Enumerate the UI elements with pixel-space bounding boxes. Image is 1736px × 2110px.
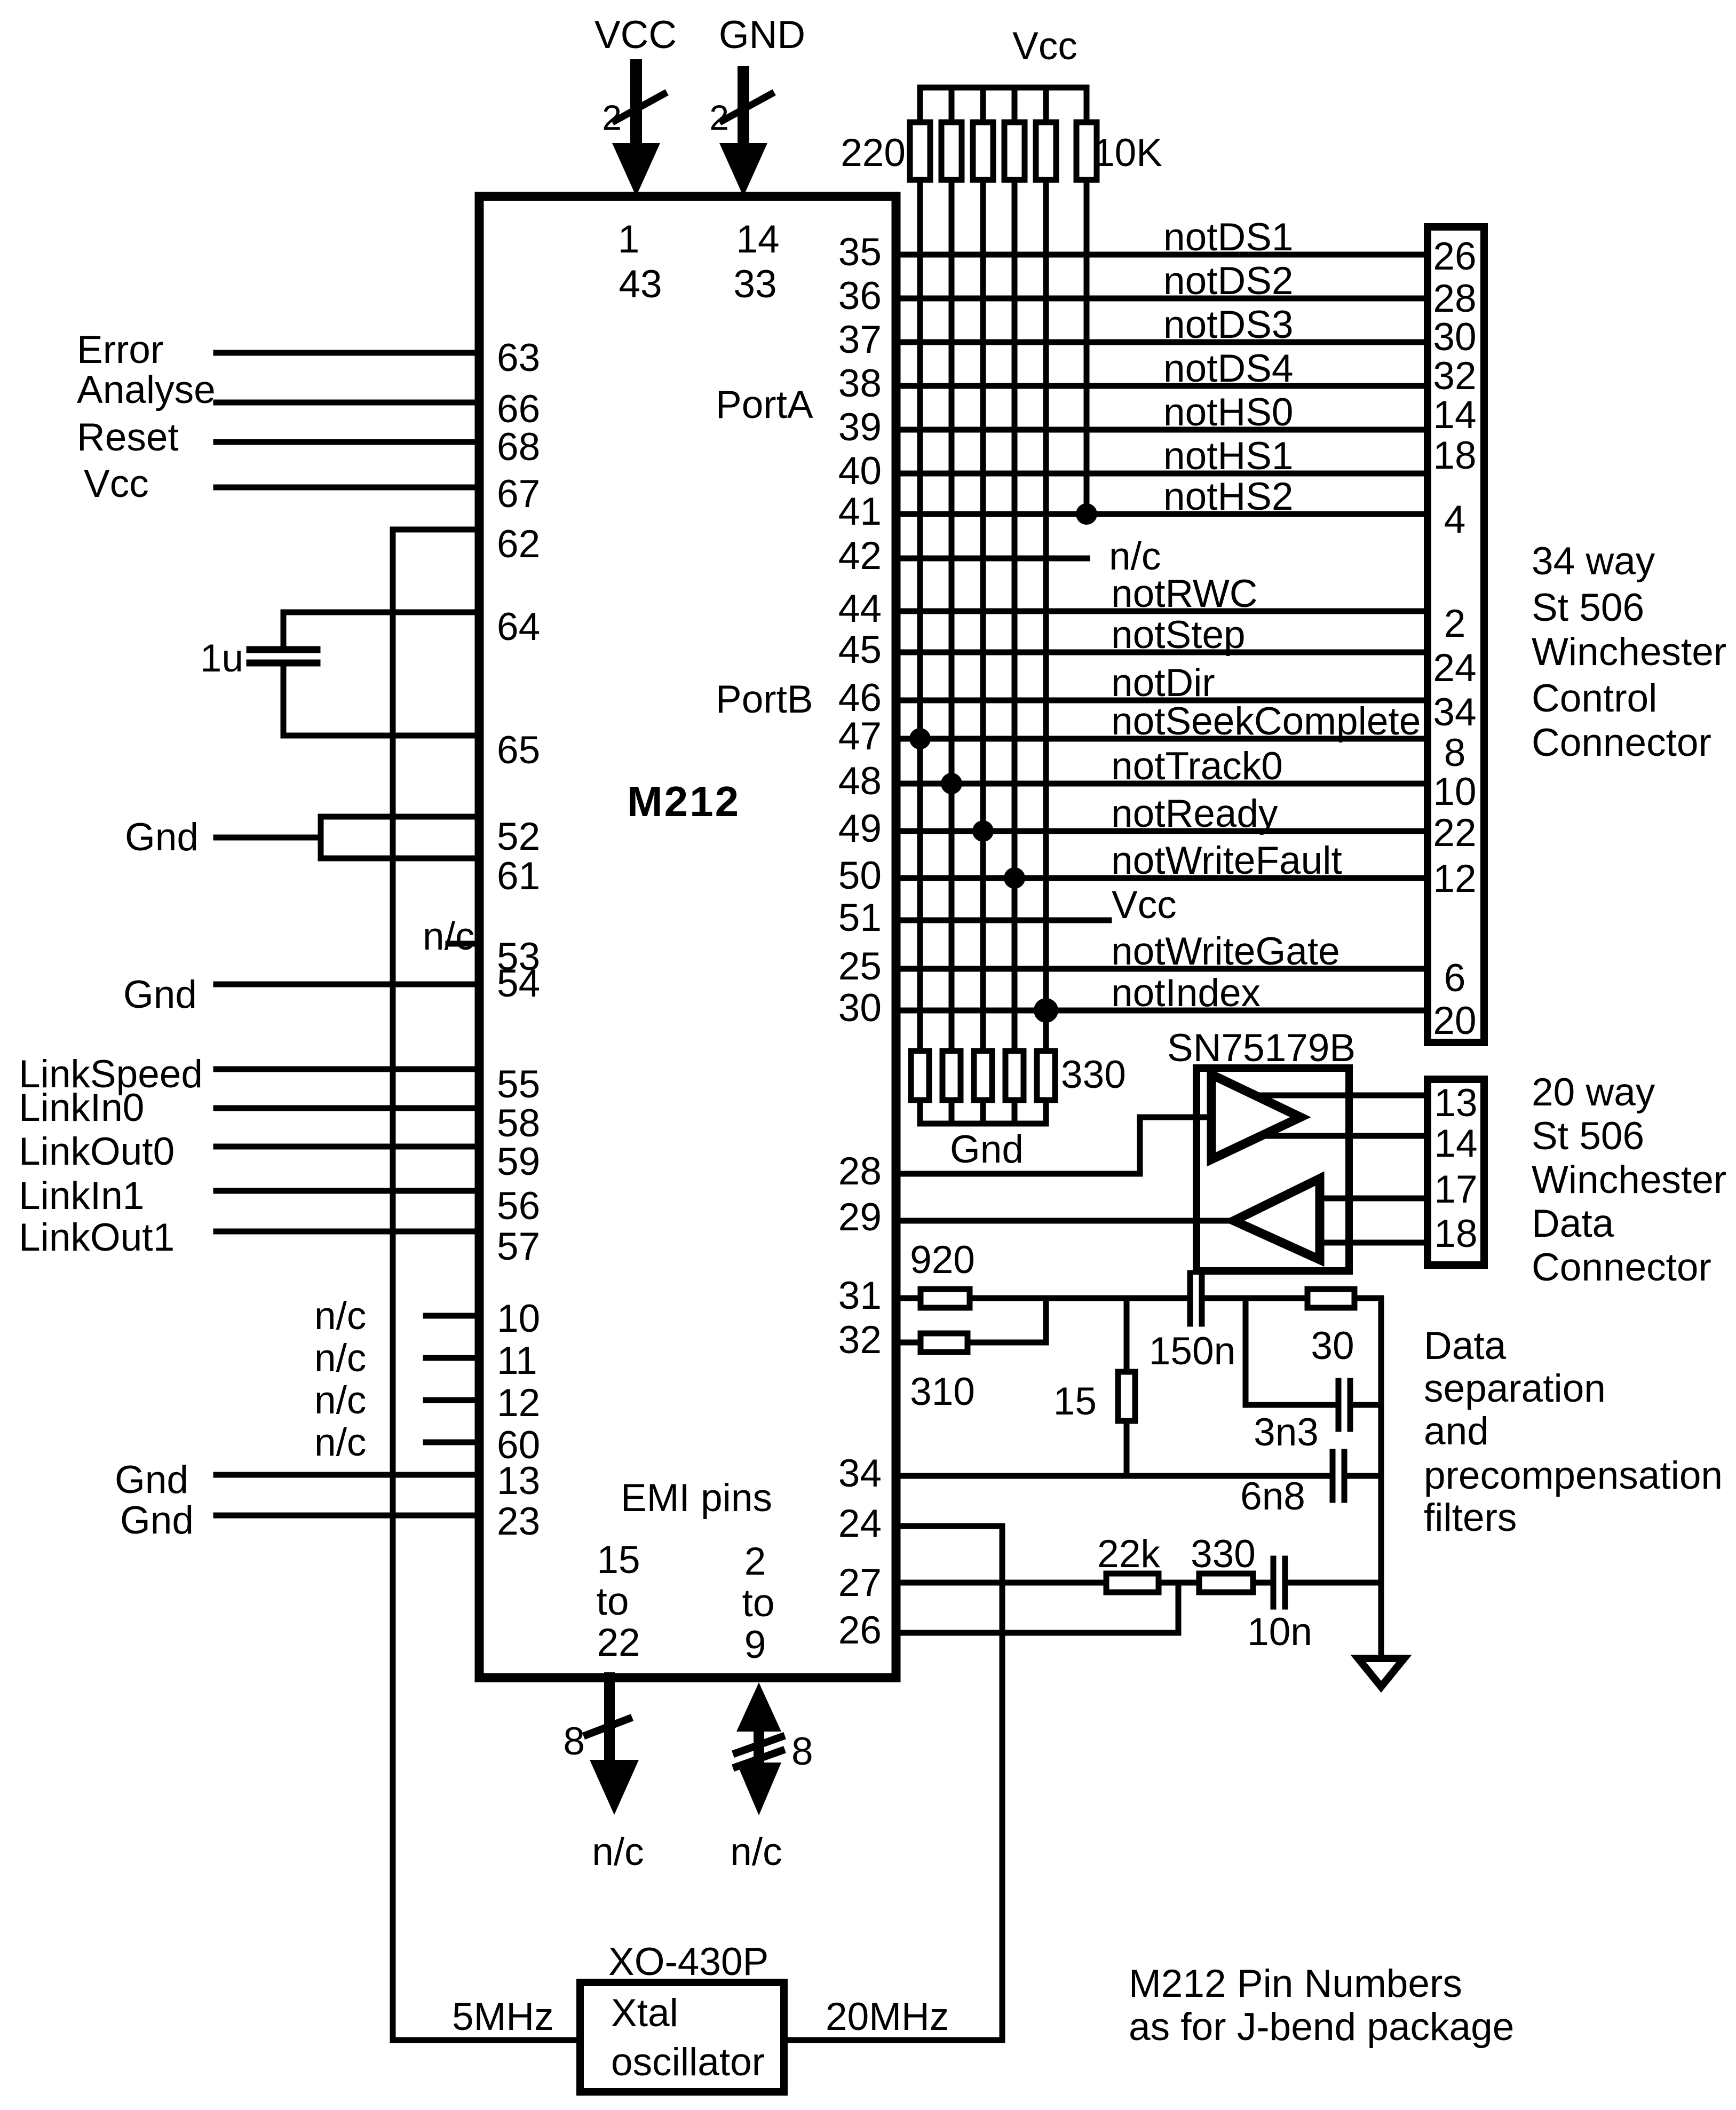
- oscillator X1 text: [611, 1992, 765, 2084]
- wire pin 38 notDS4: [838, 347, 1477, 405]
- node Error wire to pin 63: [77, 328, 540, 380]
- label pins 2 to 9: [742, 1540, 775, 1666]
- svg-text:M212: M212: [627, 778, 740, 825]
- capacitor 6n8: [1240, 1452, 1344, 1518]
- resistor 220 (column 4): [1004, 122, 1025, 180]
- wire pin 34 to capacitor 6n8: [838, 1452, 1333, 1495]
- svg-text:40: 40: [838, 449, 882, 493]
- svg-text:and: and: [1424, 1410, 1489, 1453]
- svg-text:Winchester: Winchester: [1532, 1158, 1726, 1202]
- wire receiver input from connector 17: [1320, 1196, 1424, 1202]
- svg-text:62: 62: [497, 523, 540, 566]
- svg-text:42: 42: [838, 534, 882, 578]
- svg-text:8: 8: [1444, 731, 1466, 775]
- wire pin 26 up to 22k/330 node: [838, 1583, 1178, 1652]
- label pins 15 to 22: [597, 1538, 640, 1664]
- power arrow VCC into pins 1,43: [612, 65, 660, 196]
- junction pin 41 / 10K: [1076, 503, 1097, 525]
- svg-text:notSeekComplete: notSeekComplete: [1111, 700, 1421, 743]
- label 34 way St 506 Winchester Control Connector: [1532, 540, 1726, 764]
- svg-text:31: 31: [838, 1274, 882, 1317]
- svg-text:13: 13: [1434, 1081, 1477, 1125]
- svg-text:22: 22: [1433, 811, 1476, 855]
- svg-text:LinkIn1: LinkIn1: [19, 1174, 144, 1218]
- svg-text:notStep: notStep: [1111, 613, 1246, 657]
- wire pin 32: [838, 1318, 918, 1362]
- svg-text:8: 8: [563, 1720, 585, 1763]
- connector J1 34 way box: [1428, 227, 1484, 1042]
- svg-text:6: 6: [1444, 957, 1466, 1000]
- connector J2 pin numbers: [1434, 1081, 1477, 1255]
- bus arrow EMI pins 2-9 n/c (bidirectional): [730, 1682, 813, 1874]
- wire capacitor 10n to right rail: [1285, 1580, 1381, 1586]
- svg-text:1u: 1u: [200, 637, 243, 680]
- svg-text:48: 48: [838, 760, 882, 803]
- capacitor 150n: [1149, 1273, 1235, 1373]
- wire pin 24 to oscillator 20MHz: [788, 1502, 1002, 2040]
- junction pin 50 / column 4: [1004, 867, 1025, 889]
- wire resistor 22k to resistor 330: [1159, 1580, 1196, 1586]
- svg-text:15: 15: [1053, 1380, 1097, 1423]
- svg-text:67: 67: [497, 472, 540, 516]
- svg-text:Data: Data: [1424, 1324, 1507, 1368]
- svg-text:13: 13: [497, 1459, 540, 1503]
- svg-text:28: 28: [1433, 277, 1476, 320]
- ground: [1358, 1658, 1404, 1687]
- wire pull-up column 1: [917, 183, 923, 1048]
- wire pin 46 notDir: [838, 661, 1477, 734]
- svg-text:10K: 10K: [1093, 131, 1162, 175]
- node LinkOut0 wire to pin 59: [19, 1130, 540, 1183]
- svg-text:2: 2: [602, 98, 622, 137]
- resistor 920: [910, 1238, 975, 1308]
- svg-text:notDS2: notDS2: [1163, 259, 1294, 303]
- wire pin 30 notIndex: [838, 971, 1477, 1042]
- svg-text:notWriteFault: notWriteFault: [1111, 839, 1342, 882]
- node Gnd wire to pin 13: [115, 1458, 540, 1503]
- wire pin 51 Vcc: [838, 883, 1177, 939]
- svg-text:Data: Data: [1532, 1202, 1614, 1245]
- svg-text:51: 51: [838, 896, 882, 939]
- svg-text:25: 25: [838, 945, 882, 988]
- wire pull-up column 4: [1012, 183, 1018, 1048]
- svg-text:separation: separation: [1424, 1367, 1606, 1410]
- resistor 330 (column 5): [1037, 1051, 1055, 1100]
- svg-text:Analyse: Analyse: [77, 368, 216, 412]
- pin 60 n/c stub: [314, 1421, 540, 1467]
- wire pull-up column 5: [1043, 183, 1049, 1048]
- svg-text:filters: filters: [1424, 1496, 1517, 1539]
- svg-text:29: 29: [838, 1196, 882, 1239]
- svg-text:Connector: Connector: [1532, 721, 1711, 764]
- wire pin 40 notHS1: [838, 434, 1477, 493]
- svg-text:32: 32: [838, 1318, 882, 1362]
- svg-text:32: 32: [1433, 354, 1476, 398]
- svg-text:n/c: n/c: [1109, 535, 1161, 578]
- junction pin 49 / column 3: [972, 820, 994, 842]
- wire pin 62 to 5MHz oscillator input: [393, 523, 576, 2040]
- svg-text:330: 330: [1061, 1053, 1126, 1096]
- svg-text:LinkOut1: LinkOut1: [19, 1216, 175, 1259]
- svg-text:n/c: n/c: [314, 1337, 366, 1380]
- resistor 310: [910, 1333, 975, 1413]
- svg-text:47: 47: [838, 715, 882, 758]
- wire pin 49 notReady: [838, 792, 1477, 855]
- wire resistor 30 to right rail: [1354, 1295, 1381, 1301]
- wire pin 47 notSeekComplete: [838, 700, 1466, 775]
- resistor 30: [1307, 1289, 1354, 1368]
- svg-text:notRWC: notRWC: [1111, 572, 1258, 615]
- svg-text:220: 220: [841, 131, 906, 175]
- oscillator X1 box: [580, 1982, 784, 2092]
- junction pin 30 / column 5: [1034, 998, 1058, 1023]
- wire resistor 330 to capacitor 10n: [1253, 1580, 1273, 1586]
- svg-text:26: 26: [1433, 235, 1476, 278]
- svg-text:18: 18: [1434, 1212, 1477, 1255]
- wire pin 50 notWriteFault: [838, 839, 1477, 900]
- wire pin 42 n/c: [838, 534, 1161, 578]
- pin 12 n/c stub: [314, 1379, 540, 1425]
- svg-text:12: 12: [497, 1381, 540, 1425]
- svg-text:310: 310: [910, 1370, 975, 1413]
- svg-text:17: 17: [1434, 1168, 1477, 1211]
- svg-text:PortB: PortB: [716, 678, 813, 721]
- svg-text:n/c: n/c: [592, 1830, 644, 1874]
- svg-text:30: 30: [1311, 1324, 1354, 1368]
- svg-text:33: 33: [733, 263, 776, 306]
- svg-text:n/c: n/c: [314, 1379, 366, 1422]
- resistor 220 (column 2): [941, 122, 962, 180]
- svg-text:n/c: n/c: [423, 915, 474, 958]
- svg-text:precompensation: precompensation: [1424, 1454, 1723, 1497]
- svg-text:55: 55: [497, 1063, 540, 1106]
- resistor 22k: [1097, 1532, 1160, 1592]
- node Gnd wire to pin 54: [123, 962, 540, 1016]
- label 20 way St 506 Winchester Data Connector: [1532, 1071, 1726, 1289]
- svg-text:9: 9: [744, 1623, 766, 1666]
- svg-text:920: 920: [910, 1238, 975, 1282]
- power arrow GND into pins 14,33: [719, 72, 767, 196]
- svg-text:12: 12: [1433, 857, 1476, 900]
- buffer receiver triangle: [1234, 1179, 1320, 1260]
- svg-text:notDS3: notDS3: [1163, 303, 1294, 346]
- svg-text:11: 11: [497, 1339, 537, 1382]
- resistor 330 (precomp): [1191, 1532, 1256, 1592]
- svg-text:EMI pins: EMI pins: [621, 1476, 772, 1520]
- svg-text:VCC: VCC: [594, 13, 677, 57]
- svg-text:35: 35: [838, 231, 882, 274]
- svg-text:notHS0: notHS0: [1163, 391, 1294, 434]
- junction pin 48 / column 2: [941, 773, 962, 794]
- svg-text:27: 27: [838, 1561, 882, 1605]
- svg-text:2: 2: [709, 98, 729, 137]
- svg-text:24: 24: [838, 1502, 882, 1545]
- svg-text:Gnd: Gnd: [123, 973, 197, 1016]
- svg-text:n/c: n/c: [314, 1294, 366, 1338]
- svg-text:68: 68: [497, 425, 540, 469]
- node Gnd fork to pins 52 and 61: [125, 815, 540, 898]
- svg-text:notTrack0: notTrack0: [1111, 745, 1283, 788]
- svg-text:Gnd: Gnd: [120, 1499, 194, 1542]
- wire pin 41 notHS2: [838, 475, 1466, 541]
- node Analyse wire to pin 66: [77, 368, 540, 431]
- svg-text:XO-430P: XO-430P: [608, 1940, 768, 1983]
- svg-text:28: 28: [838, 1150, 882, 1193]
- svg-text:26: 26: [838, 1609, 882, 1652]
- svg-text:56: 56: [497, 1184, 540, 1228]
- wire pin 27: [838, 1561, 1104, 1605]
- svg-text:14: 14: [1434, 1122, 1477, 1165]
- wire capacitor 150n to resistor 30: [1202, 1295, 1305, 1301]
- wire capacitor 3n3 to right rail: [1350, 1402, 1381, 1408]
- svg-text:Gnd: Gnd: [125, 816, 199, 859]
- svg-text:64: 64: [497, 605, 540, 649]
- junction pin 47 / column 1: [909, 728, 931, 749]
- svg-text:34: 34: [1433, 691, 1476, 734]
- svg-text:n/c: n/c: [730, 1830, 782, 1874]
- svg-text:to: to: [597, 1580, 629, 1623]
- wire pull-up column 3: [980, 183, 986, 1048]
- resistor 330 (column 2): [942, 1051, 961, 1100]
- svg-text:22k: 22k: [1097, 1532, 1160, 1576]
- svg-text:41: 41: [838, 490, 882, 533]
- svg-text:5MHz: 5MHz: [452, 1995, 554, 2038]
- capacitor 10n: [1247, 1559, 1312, 1654]
- svg-text:n/c: n/c: [314, 1421, 366, 1464]
- node LinkIn0 wire to pin 58: [19, 1086, 540, 1145]
- svg-text:4: 4: [1444, 498, 1466, 541]
- resistor 220 (column 3): [973, 122, 993, 180]
- wire receiver output to pin 29: [838, 1196, 1234, 1239]
- svg-text:20: 20: [1433, 999, 1476, 1042]
- wire capacitor to pin 65: [283, 663, 540, 772]
- svg-text:20MHz: 20MHz: [826, 1995, 949, 2038]
- wire resistor 920 to capacitor 150n: [972, 1295, 1187, 1301]
- label Data separation and precompensation filters: [1424, 1324, 1723, 1539]
- wire pin 36 notDS2: [838, 259, 1477, 320]
- node LinkOut1 wire to pin 57: [19, 1216, 540, 1268]
- resistor 330 (column 4): [1005, 1051, 1024, 1100]
- wire capacitor 6n8 to right rail: [1344, 1473, 1381, 1479]
- svg-text:1: 1: [618, 218, 640, 261]
- svg-text:22: 22: [597, 1621, 640, 1664]
- svg-text:St 506: St 506: [1532, 1115, 1644, 1158]
- svg-text:Gnd: Gnd: [950, 1128, 1024, 1171]
- wire pin 31: [838, 1274, 918, 1317]
- svg-text:34: 34: [838, 1452, 882, 1495]
- svg-text:59: 59: [497, 1140, 540, 1183]
- svg-text:10n: 10n: [1247, 1610, 1312, 1654]
- svg-text:15: 15: [597, 1538, 640, 1582]
- pin 11 n/c stub: [314, 1337, 537, 1382]
- svg-text:Connector: Connector: [1532, 1246, 1711, 1289]
- node Gnd wire to pin 23: [120, 1499, 540, 1543]
- resistor 220 (column 1): [910, 122, 930, 180]
- svg-text:Xtal: Xtal: [611, 1992, 678, 2035]
- svg-text:LinkOut0: LinkOut0: [19, 1130, 175, 1173]
- svg-text:54: 54: [497, 962, 540, 1005]
- svg-text:14: 14: [736, 218, 779, 261]
- svg-text:10: 10: [1433, 770, 1476, 813]
- wire pull-up column 6 (10K): [1084, 183, 1090, 514]
- svg-text:23: 23: [497, 1500, 540, 1543]
- svg-text:18: 18: [1433, 434, 1476, 477]
- bus arrow EMI pins 15-22 n/c: [563, 1678, 644, 1874]
- resistor 220 (column 5): [1036, 122, 1056, 180]
- svg-text:6n8: 6n8: [1240, 1475, 1305, 1518]
- svg-text:M212 Pin Numbers: M212 Pin Numbers: [1129, 1962, 1462, 2005]
- svg-text:37: 37: [838, 318, 882, 361]
- svg-text:Reset: Reset: [77, 416, 179, 459]
- wire driver output to connector 13: [1255, 1093, 1424, 1099]
- svg-text:notDir: notDir: [1111, 661, 1215, 705]
- svg-text:Vcc: Vcc: [1012, 25, 1077, 68]
- svg-text:Gnd: Gnd: [115, 1458, 188, 1502]
- svg-text:150n: 150n: [1149, 1330, 1235, 1373]
- note M212 pin numbers: [1129, 1962, 1514, 2049]
- svg-text:39: 39: [838, 406, 882, 449]
- svg-text:to: to: [742, 1582, 775, 1625]
- svg-text:58: 58: [497, 1102, 540, 1145]
- svg-text:as for J-bend package: as for J-bend package: [1129, 2005, 1514, 2049]
- buffer U2 SN75179B box: [1196, 1068, 1349, 1271]
- wire pin 48 notTrack0: [838, 745, 1477, 813]
- wire pin 64 to capacitor: [283, 605, 540, 650]
- resistor 330 (column 1): [911, 1051, 929, 1100]
- wire pin 44 notRWC: [838, 572, 1466, 645]
- svg-text:10: 10: [497, 1297, 540, 1340]
- svg-text:20 way: 20 way: [1532, 1071, 1655, 1114]
- capacitor 3n3: [1254, 1381, 1350, 1454]
- svg-text:44: 44: [838, 587, 882, 630]
- wire right rail to ground: [1378, 1298, 1384, 1658]
- svg-text:3n3: 3n3: [1254, 1411, 1319, 1454]
- wire resistor 310 up to node: [968, 1298, 1046, 1342]
- svg-text:49: 49: [838, 807, 882, 850]
- svg-text:notHS2: notHS2: [1163, 475, 1294, 518]
- svg-text:LinkIn0: LinkIn0: [19, 1086, 144, 1129]
- svg-text:14: 14: [1433, 393, 1476, 437]
- svg-text:GND: GND: [719, 13, 805, 57]
- pin 53 n/c stub: [423, 915, 540, 978]
- resistor 330 (column 3): [974, 1051, 992, 1100]
- wire pull-up column 2: [949, 183, 955, 1048]
- svg-text:notReady: notReady: [1111, 792, 1278, 835]
- svg-text:61: 61: [497, 855, 540, 898]
- svg-text:38: 38: [838, 362, 882, 405]
- svg-text:notDS4: notDS4: [1163, 347, 1294, 390]
- svg-text:34 way: 34 way: [1532, 540, 1655, 583]
- wire pin 39 notHS0: [838, 391, 1477, 449]
- wire pin 35 notDS1: [838, 216, 1477, 278]
- svg-text:notHS1: notHS1: [1163, 434, 1294, 478]
- svg-text:notDS1: notDS1: [1163, 216, 1294, 259]
- svg-text:2: 2: [744, 1540, 766, 1583]
- buffer driver triangle: [1211, 1074, 1301, 1159]
- svg-text:43: 43: [619, 263, 662, 306]
- wire pin 45 notStep: [838, 613, 1477, 690]
- node Vcc wire to pin 67: [84, 462, 540, 516]
- pin 10 n/c stub: [314, 1294, 540, 1340]
- svg-text:24: 24: [1433, 646, 1476, 690]
- svg-text:8: 8: [791, 1730, 813, 1773]
- svg-text:Winchester: Winchester: [1532, 630, 1726, 674]
- svg-text:30: 30: [838, 986, 882, 1030]
- svg-text:66: 66: [497, 388, 540, 431]
- wire node to capacitor 3n3: [1246, 1298, 1338, 1405]
- wire pin 28 to driver input: [838, 1117, 1211, 1193]
- svg-text:330: 330: [1191, 1532, 1256, 1576]
- node LinkSpeed wire to pin 55: [19, 1053, 540, 1106]
- node LinkIn1 wire to pin 56: [19, 1174, 540, 1228]
- svg-text:notWriteGate: notWriteGate: [1111, 930, 1340, 973]
- svg-text:SN75179B: SN75179B: [1167, 1026, 1355, 1070]
- resistor 10K (column 6): [1076, 122, 1097, 180]
- svg-text:Vcc: Vcc: [84, 462, 149, 505]
- bus-width slash 2 (GND): [709, 94, 771, 137]
- IC M212 body: [479, 196, 896, 1678]
- svg-text:oscillator: oscillator: [611, 2041, 765, 2084]
- wire Vcc bus for resistor network: [920, 88, 1087, 120]
- svg-text:46: 46: [838, 676, 882, 720]
- svg-text:notIndex: notIndex: [1111, 971, 1261, 1015]
- svg-text:45: 45: [838, 628, 882, 671]
- svg-text:Control: Control: [1532, 677, 1657, 720]
- capacitor 1u: [200, 637, 317, 680]
- svg-text:57: 57: [497, 1225, 540, 1268]
- svg-text:30: 30: [1433, 315, 1476, 359]
- svg-text:2: 2: [1444, 602, 1466, 645]
- wire driver output to connector 14: [1259, 1133, 1424, 1139]
- wire pin 37 notDS3: [838, 303, 1477, 361]
- svg-text:52: 52: [497, 815, 540, 858]
- svg-text:PortA: PortA: [716, 383, 813, 426]
- node Reset wire to pin 68: [77, 416, 540, 469]
- wire receiver input from connector 18: [1320, 1240, 1424, 1246]
- svg-text:63: 63: [497, 336, 540, 380]
- connector J2 20 way box: [1428, 1079, 1484, 1265]
- bus-width slash 2 (VCC): [602, 94, 664, 137]
- wire pin 25 notWriteGate: [838, 930, 1466, 1000]
- svg-text:65: 65: [497, 729, 540, 772]
- svg-text:Error: Error: [77, 328, 163, 372]
- resistor 15: [1053, 1298, 1135, 1476]
- svg-text:Vcc: Vcc: [1112, 883, 1177, 927]
- svg-text:50: 50: [838, 854, 882, 897]
- svg-text:St 506: St 506: [1532, 586, 1644, 629]
- wire Gnd bus under 330 resistors: [920, 1103, 1046, 1124]
- svg-text:36: 36: [838, 274, 882, 318]
